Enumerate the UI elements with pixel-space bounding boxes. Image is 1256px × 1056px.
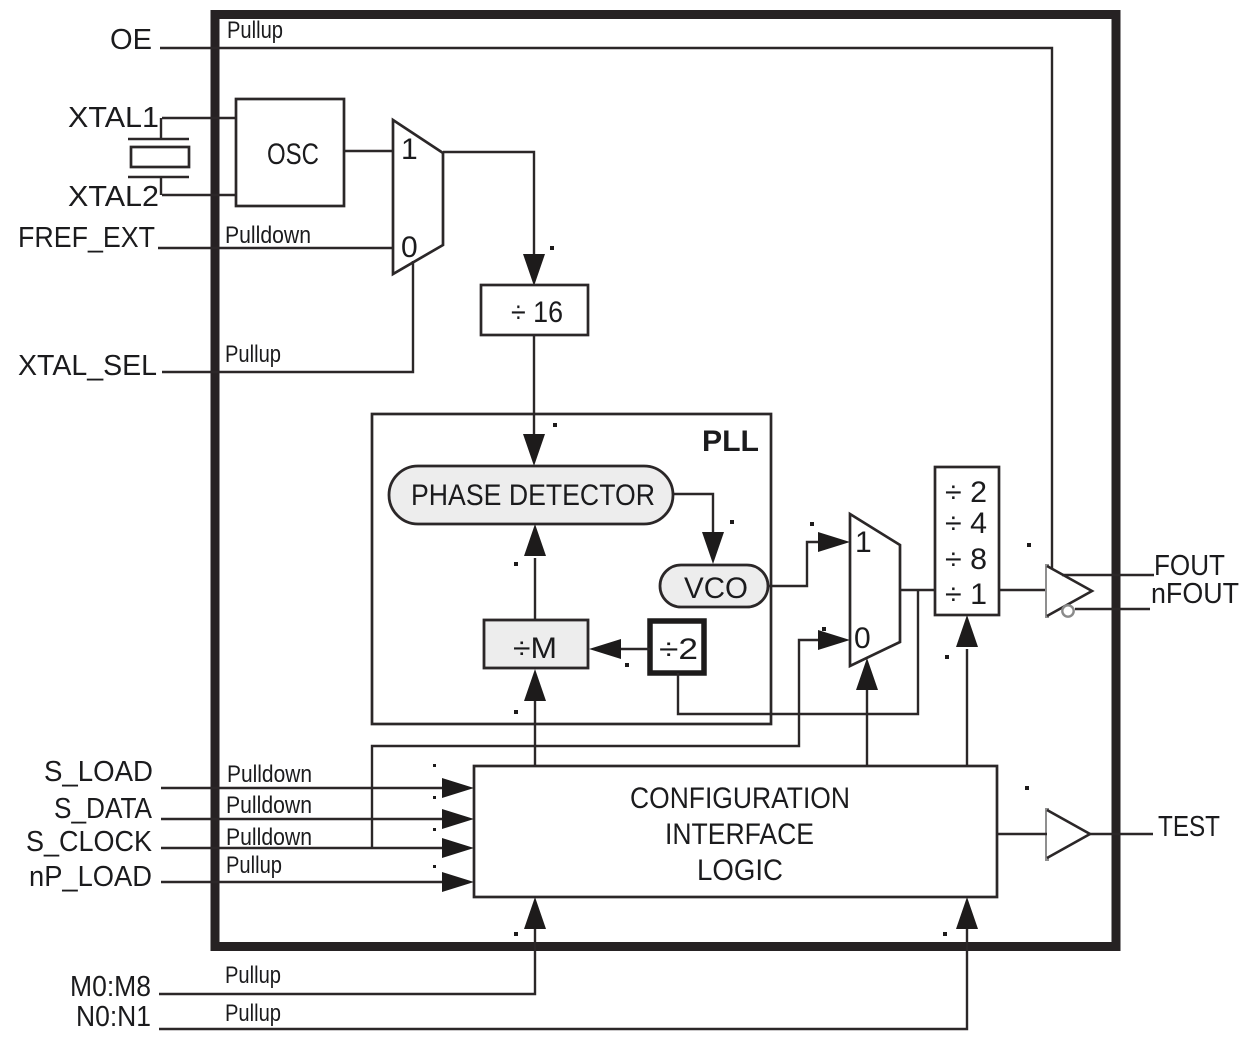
svg-text:N0:N1: N0:N1: [76, 1001, 151, 1033]
svg-text:Pulldown: Pulldown: [226, 792, 312, 819]
arrow M0:M8 into config: [524, 897, 546, 929]
svg-text:0: 0: [401, 231, 418, 264]
arrow nP_LOAD into config: [442, 872, 474, 892]
crystal Y1: [128, 118, 189, 195]
arrow into output mux input 1: [818, 532, 850, 552]
arrow into divider16: [523, 254, 545, 286]
wire post divider select from config: [966, 649, 968, 766]
svg-text:Pullup: Pullup: [225, 962, 281, 989]
wire mux output to divide-by-16: [443, 152, 534, 256]
svg-text:0: 0: [854, 622, 871, 655]
wire DIVM output to phase detector: [534, 558, 536, 620]
wire DIV2 to DIVM: [620, 648, 650, 650]
PLL block boundary: [372, 414, 771, 724]
divider DIV2 feedback: [650, 621, 704, 673]
arrow into VCO: [702, 532, 724, 564]
arrow into DIVM select: [524, 669, 546, 701]
wire output mux to post divider: [900, 589, 935, 591]
arrow S_CLOCK into config: [442, 838, 474, 858]
arrow S_LOAD into config: [442, 778, 474, 798]
svg-text:÷M: ÷M: [513, 632, 557, 665]
svg-text:LOGIC: LOGIC: [697, 854, 783, 887]
wire nFOUT: [1075, 608, 1150, 610]
divider DIVM: [484, 620, 588, 668]
wire post divider to output buffer: [999, 589, 1047, 591]
svg-text:1: 1: [401, 133, 418, 166]
svg-text:Pullup: Pullup: [227, 17, 283, 44]
wire config to DIVM select: [534, 701, 536, 766]
wire FOUT: [1062, 574, 1154, 576]
svg-text:TEST: TEST: [1158, 811, 1220, 843]
VCO U3: [660, 565, 768, 607]
wire XTAL2 to OSC: [162, 194, 236, 196]
chip outer boundary: [215, 15, 1116, 947]
wire VCO output to mux input 1: [768, 542, 820, 586]
wire config to TEST buffer: [997, 833, 1047, 835]
wire S_CLOCK net to mux input 0: [372, 640, 820, 848]
svg-text:÷ 2: ÷ 2: [945, 476, 987, 509]
svg-text:VCO: VCO: [684, 572, 748, 605]
svg-text:PHASE DETECTOR: PHASE DETECTOR: [411, 479, 655, 512]
svg-text:S_CLOCK: S_CLOCK: [26, 826, 153, 858]
wire phase detector to VCO: [673, 494, 713, 532]
mux U4 output select: [850, 514, 900, 666]
svg-text:1: 1: [855, 526, 872, 559]
svg-text:Pulldown: Pulldown: [225, 222, 311, 249]
svg-text:XTAL1: XTAL1: [68, 102, 159, 134]
arrow DIVM to phase detector: [524, 524, 546, 556]
svg-text:S_DATA: S_DATA: [54, 793, 153, 825]
svg-text:Pulldown: Pulldown: [227, 761, 312, 788]
wire FREF_EXT to mux input 0: [158, 247, 393, 249]
wire divide16 output to phase detector: [533, 335, 535, 436]
svg-text:÷ 16: ÷ 16: [511, 296, 563, 329]
svg-text:÷ 1: ÷ 1: [945, 578, 987, 611]
wire N0:N1 to config: [159, 929, 967, 1029]
wire output mux select from config: [866, 689, 868, 766]
svg-text:÷ 4: ÷ 4: [945, 507, 987, 540]
wire XTAL1 to OSC: [162, 117, 236, 119]
svg-text:nFOUT: nFOUT: [1151, 578, 1239, 610]
output buffer U5 FOUT: [1047, 564, 1092, 618]
wire S_DATA to config: [161, 818, 443, 820]
arrow into output mux input 0: [818, 630, 850, 650]
svg-text:S_LOAD: S_LOAD: [44, 756, 153, 788]
svg-text:INTERFACE: INTERFACE: [665, 818, 814, 851]
stray scan dots: [433, 246, 1031, 936]
svg-text:XTAL2: XTAL2: [68, 181, 159, 213]
wire OE to FOUT buffer enable: [160, 48, 1052, 568]
divider DIV16: [481, 285, 588, 335]
arrow N0:N1 into config: [956, 897, 978, 929]
wire feedback mux output to DIV2: [678, 590, 918, 714]
wire XTAL_SEL to mux select: [162, 261, 413, 372]
arrow into phase detector: [523, 434, 545, 466]
svg-text:OSC: OSC: [267, 138, 319, 171]
oscillator OSC: [236, 99, 344, 206]
svg-text:÷ 8: ÷ 8: [945, 543, 987, 576]
svg-text:FREF_EXT: FREF_EXT: [18, 222, 155, 254]
svg-text:Pullup: Pullup: [225, 341, 281, 368]
wire S_LOAD to config: [161, 787, 443, 789]
wire TEST: [1090, 833, 1153, 835]
phase detector U2: [389, 466, 673, 524]
svg-text:Pullup: Pullup: [226, 852, 282, 879]
svg-text:CONFIGURATION: CONFIGURATION: [630, 782, 850, 815]
svg-text:XTAL_SEL: XTAL_SEL: [18, 350, 157, 382]
wire S_CLOCK to config: [161, 847, 443, 849]
buffer U6 TEST: [1047, 808, 1090, 861]
svg-text:OE: OE: [110, 24, 152, 56]
svg-text:PLL: PLL: [702, 425, 759, 458]
wire nP_LOAD to config: [161, 881, 443, 883]
post divider DIVN: [935, 467, 999, 615]
svg-text:nP_LOAD: nP_LOAD: [29, 861, 152, 893]
arrow into DIVM: [589, 639, 621, 659]
svg-text:M0:M8: M0:M8: [70, 971, 151, 1003]
wire OSC output to mux input 1: [344, 150, 393, 152]
svg-text:Pullup: Pullup: [225, 1000, 281, 1027]
arrow S_DATA into config: [442, 809, 474, 829]
arrow into post divider select: [956, 615, 978, 647]
config interface logic block: [474, 766, 997, 897]
mux U1 reference select: [393, 120, 443, 274]
svg-text:÷2: ÷2: [659, 633, 698, 666]
wire M0:M8 to config: [159, 929, 535, 994]
arrow into output mux select: [856, 658, 878, 690]
